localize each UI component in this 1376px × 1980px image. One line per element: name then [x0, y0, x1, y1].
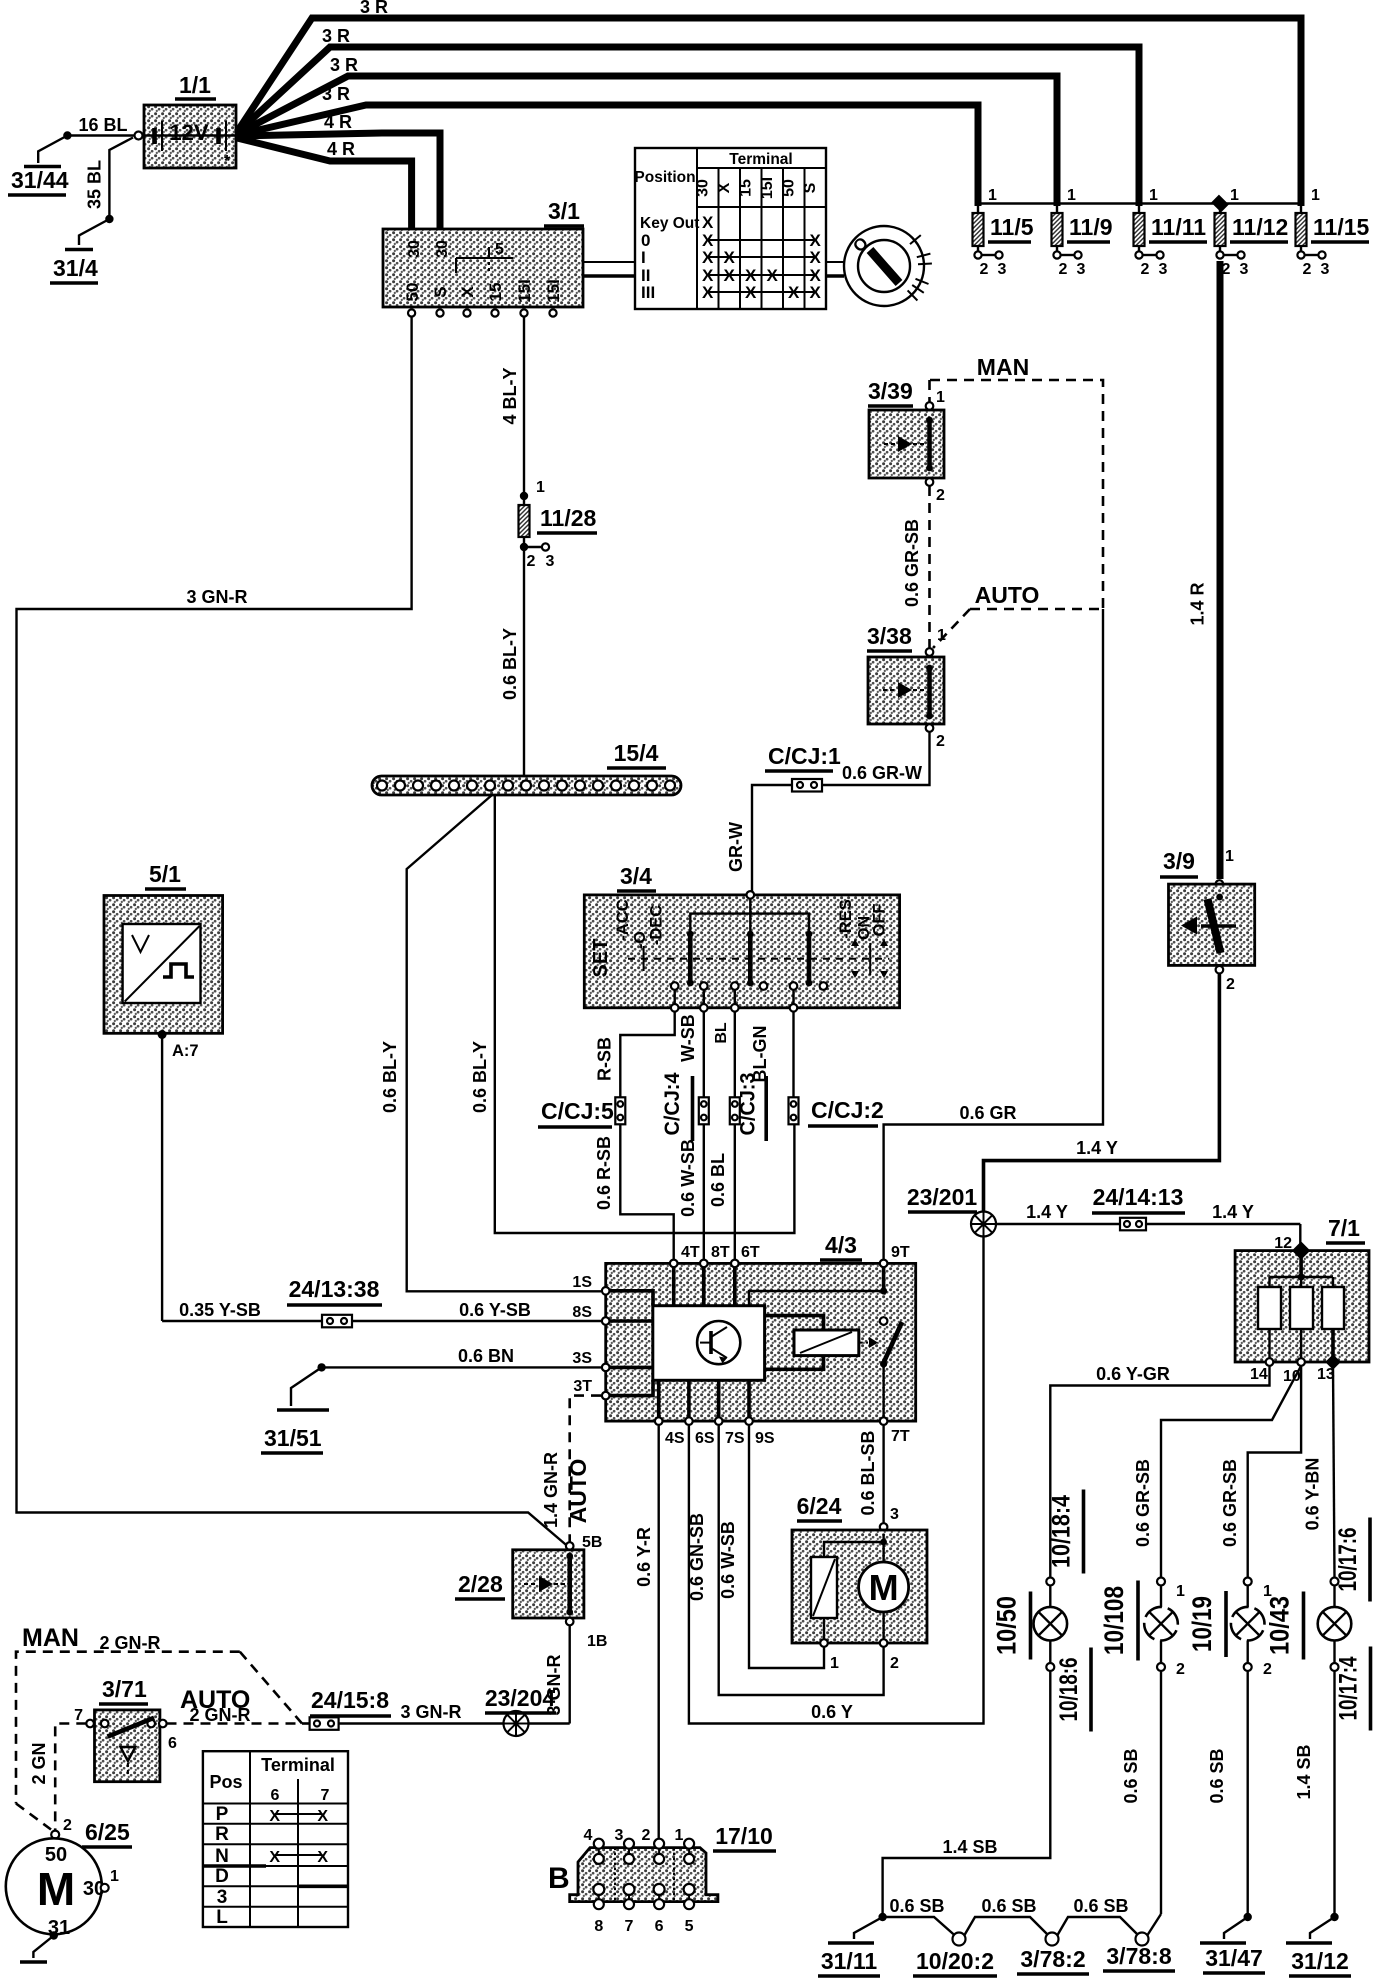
svg-text:10/18:4: 10/18:4: [1048, 1495, 1076, 1568]
svg-text:2: 2: [1263, 1661, 1272, 1678]
svg-text:3 R: 3 R: [322, 26, 350, 46]
svg-text:31/12: 31/12: [1291, 1948, 1349, 1974]
svg-text:1: 1: [988, 187, 997, 204]
svg-text:31/51: 31/51: [264, 1425, 322, 1451]
svg-text:R-SB: R-SB: [595, 1037, 615, 1081]
svg-text:2: 2: [642, 1827, 651, 1844]
svg-text:3: 3: [615, 1827, 624, 1844]
svg-text:L: L: [216, 1907, 228, 1928]
svg-text:24/14:13: 24/14:13: [1093, 1184, 1184, 1210]
svg-text:X: X: [716, 182, 733, 193]
svg-text:12V: 12V: [169, 120, 208, 145]
svg-text:7: 7: [74, 1707, 83, 1724]
svg-text:1.4 SB: 1.4 SB: [1294, 1744, 1314, 1799]
svg-text:Position: Position: [634, 169, 695, 186]
svg-text:X: X: [788, 283, 800, 302]
svg-text:17/10: 17/10: [715, 1823, 773, 1849]
svg-text:10/43: 10/43: [1265, 1596, 1295, 1655]
svg-text:4 R: 4 R: [327, 139, 355, 159]
svg-text:30: 30: [695, 179, 712, 197]
svg-text:1.4 Y: 1.4 Y: [1026, 1202, 1068, 1222]
svg-text:MAN: MAN: [22, 1624, 79, 1652]
svg-text:X: X: [702, 213, 714, 232]
svg-text:2: 2: [1141, 261, 1150, 278]
svg-text:2: 2: [1059, 261, 1068, 278]
svg-text:W-SB: W-SB: [678, 1014, 698, 1062]
svg-text:3/71: 3/71: [102, 1676, 147, 1702]
svg-text:0.6 SB: 0.6 SB: [1207, 1748, 1227, 1803]
svg-text:3 GN-R: 3 GN-R: [400, 1702, 461, 1722]
svg-text:R: R: [215, 1824, 229, 1845]
svg-text:35 BL: 35 BL: [85, 160, 105, 209]
svg-text:0.6 GR-SB: 0.6 GR-SB: [902, 519, 922, 607]
svg-text:15I: 15I: [544, 279, 563, 303]
svg-text:M: M: [37, 1863, 75, 1915]
svg-text:10/17:6: 10/17:6: [1334, 1528, 1362, 1592]
svg-text:C/CJ:5: C/CJ:5: [541, 1098, 614, 1124]
svg-text:0.6 W-SB: 0.6 W-SB: [678, 1139, 698, 1217]
svg-text:6: 6: [271, 1787, 280, 1804]
svg-text:0.6 BL-Y: 0.6 BL-Y: [380, 1041, 400, 1113]
svg-text:3 GN-R: 3 GN-R: [186, 587, 247, 607]
svg-text:2: 2: [1176, 1661, 1185, 1678]
svg-text:3: 3: [890, 1506, 899, 1523]
svg-text:X: X: [767, 266, 779, 285]
svg-text:Terminal: Terminal: [729, 151, 792, 168]
svg-text:10/17:4: 10/17:4: [1335, 1656, 1363, 1720]
svg-text:3/39: 3/39: [868, 378, 913, 404]
svg-text:2/28: 2/28: [458, 1571, 503, 1597]
svg-text:4S: 4S: [665, 1430, 685, 1447]
svg-text:X: X: [269, 1808, 280, 1825]
svg-text:C/CJ:4: C/CJ:4: [661, 1072, 684, 1135]
svg-text:4 BL-Y: 4 BL-Y: [500, 367, 520, 424]
svg-text:C/CJ:3: C/CJ:3: [737, 1073, 760, 1136]
svg-text:3: 3: [546, 553, 555, 570]
svg-text:Key Out: Key Out: [640, 215, 699, 232]
svg-text:0.6 W-SB: 0.6 W-SB: [718, 1521, 738, 1599]
svg-text:31/4: 31/4: [53, 255, 98, 281]
svg-text:2: 2: [1226, 976, 1235, 993]
svg-text:SET: SET: [590, 939, 612, 978]
svg-text:0.6 SB: 0.6 SB: [981, 1896, 1036, 1916]
svg-text:0.6 SB: 0.6 SB: [889, 1896, 944, 1916]
svg-text:12: 12: [1274, 1235, 1292, 1252]
svg-text:1: 1: [536, 479, 545, 496]
svg-text:8S: 8S: [572, 1304, 592, 1321]
svg-text:3T: 3T: [573, 1378, 592, 1395]
svg-text:50: 50: [403, 283, 422, 302]
svg-text:0.6 Y-BN: 0.6 Y-BN: [1303, 1458, 1323, 1531]
svg-text:15/4: 15/4: [614, 740, 659, 766]
svg-text:3/1: 3/1: [548, 198, 580, 224]
svg-text:5: 5: [495, 241, 504, 258]
svg-text:10/19: 10/19: [1187, 1596, 1217, 1652]
svg-text:X: X: [269, 1849, 280, 1866]
svg-text:24/13:38: 24/13:38: [289, 1276, 380, 1302]
svg-text:N: N: [215, 1846, 229, 1867]
svg-text:1.4 R: 1.4 R: [1188, 582, 1208, 625]
svg-text:0.6 GN-SB: 0.6 GN-SB: [687, 1513, 707, 1601]
svg-text:11/11: 11/11: [1151, 214, 1206, 240]
svg-text:14: 14: [1250, 1366, 1268, 1383]
svg-text:6: 6: [168, 1735, 177, 1752]
svg-text:3 R: 3 R: [330, 55, 358, 75]
svg-text:11/9: 11/9: [1069, 214, 1113, 240]
svg-text:3: 3: [1077, 261, 1086, 278]
svg-text:0.6 BL-Y: 0.6 BL-Y: [470, 1041, 490, 1113]
svg-text:50: 50: [781, 179, 798, 197]
svg-text:11/15: 11/15: [1313, 214, 1369, 240]
svg-text:8T: 8T: [711, 1244, 730, 1261]
svg-text:1: 1: [936, 389, 945, 406]
svg-text:6S: 6S: [695, 1430, 715, 1447]
svg-text:X: X: [724, 266, 736, 285]
svg-text:X: X: [810, 283, 822, 302]
svg-text:S: S: [431, 286, 450, 297]
svg-text:4 R: 4 R: [324, 112, 352, 132]
svg-text:2: 2: [527, 553, 536, 570]
svg-text:1: 1: [675, 1827, 684, 1844]
svg-text:24/15:8: 24/15:8: [311, 1687, 389, 1713]
svg-text:X: X: [745, 283, 757, 302]
svg-text:Terminal: Terminal: [261, 1755, 335, 1775]
svg-text:2: 2: [1303, 261, 1312, 278]
svg-text:2 GN: 2 GN: [29, 1742, 49, 1784]
svg-text:4: 4: [584, 1827, 593, 1844]
svg-text:C/CJ:1: C/CJ:1: [768, 743, 841, 769]
svg-text:C/CJ:2: C/CJ:2: [811, 1097, 884, 1123]
svg-text:2: 2: [980, 261, 989, 278]
svg-text:10/50: 10/50: [992, 1596, 1022, 1655]
svg-text:0.6 GR-SB: 0.6 GR-SB: [1220, 1459, 1240, 1547]
svg-text:1.4 Y: 1.4 Y: [1212, 1202, 1254, 1222]
svg-text:3S: 3S: [572, 1350, 592, 1367]
svg-text:0.6 GR-SB: 0.6 GR-SB: [1133, 1459, 1153, 1547]
svg-text:1: 1: [1149, 187, 1158, 204]
svg-text:Pos: Pos: [209, 1772, 242, 1792]
svg-text:B: B: [548, 1862, 570, 1895]
svg-text:0.6 Y-R: 0.6 Y-R: [634, 1527, 654, 1587]
svg-text:0.6 BL: 0.6 BL: [708, 1153, 728, 1207]
svg-text:7: 7: [625, 1918, 634, 1935]
svg-text:23/204: 23/204: [485, 1685, 556, 1711]
svg-text:0.6 R-SB: 0.6 R-SB: [594, 1136, 614, 1210]
svg-text:1: 1: [1067, 187, 1076, 204]
svg-text:7S: 7S: [725, 1430, 745, 1447]
svg-text:2 GN-R: 2 GN-R: [99, 1633, 160, 1653]
svg-text:-DEC: -DEC: [648, 905, 666, 945]
svg-text:0.6 GR: 0.6 GR: [959, 1103, 1016, 1123]
svg-text:X: X: [702, 248, 714, 267]
svg-text:11/5: 11/5: [990, 214, 1034, 240]
svg-text:1: 1: [937, 627, 946, 644]
svg-text:2: 2: [890, 1655, 899, 1672]
svg-text:0.6 Y-GR: 0.6 Y-GR: [1096, 1364, 1170, 1384]
svg-text:8: 8: [594, 1918, 603, 1935]
svg-text:3: 3: [217, 1887, 228, 1908]
svg-text:III: III: [641, 283, 655, 302]
svg-text:0.6 BN: 0.6 BN: [458, 1346, 514, 1366]
svg-text:30: 30: [434, 240, 451, 258]
svg-text:X: X: [317, 1808, 328, 1825]
svg-text:15: 15: [738, 179, 755, 197]
svg-text:0.6 Y-SB: 0.6 Y-SB: [459, 1300, 531, 1320]
svg-text:OFF: OFF: [871, 904, 889, 937]
svg-text:3 R: 3 R: [360, 0, 388, 17]
svg-text:1: 1: [1230, 187, 1239, 204]
svg-text:2: 2: [936, 487, 945, 504]
svg-text:P: P: [216, 1804, 229, 1825]
svg-text:X: X: [724, 248, 736, 267]
svg-text:2: 2: [936, 733, 945, 750]
svg-text:1.4 Y: 1.4 Y: [1076, 1138, 1118, 1158]
svg-text:AUTO: AUTO: [975, 582, 1040, 608]
svg-text:6T: 6T: [741, 1244, 760, 1261]
svg-text:X: X: [702, 283, 714, 302]
svg-text:1: 1: [830, 1655, 839, 1672]
svg-text:1.4 SB: 1.4 SB: [942, 1837, 997, 1857]
svg-text:3 R: 3 R: [322, 84, 350, 104]
svg-text:4T: 4T: [681, 1244, 700, 1261]
svg-text:0.6 SB: 0.6 SB: [1073, 1896, 1128, 1916]
svg-text:BL: BL: [713, 1022, 730, 1044]
svg-text:3/78:8: 3/78:8: [1106, 1943, 1171, 1969]
svg-text:0.6 GR-W: 0.6 GR-W: [842, 763, 922, 783]
svg-text:5: 5: [685, 1918, 694, 1935]
svg-text:2: 2: [63, 1817, 72, 1834]
svg-text:11/12: 11/12: [1232, 214, 1288, 240]
svg-text:6: 6: [655, 1918, 664, 1935]
svg-text:6/25: 6/25: [85, 1819, 130, 1845]
svg-text:-ACC: -ACC: [614, 899, 632, 940]
svg-text:I: I: [641, 248, 646, 267]
svg-text:3/4: 3/4: [620, 863, 652, 889]
svg-text:MAN: MAN: [977, 354, 1029, 380]
svg-text:-RES: -RES: [837, 899, 855, 938]
svg-text:3: 3: [1321, 261, 1330, 278]
svg-text:31/44: 31/44: [11, 167, 69, 193]
svg-text:3/38: 3/38: [867, 623, 912, 649]
svg-text:1B: 1B: [587, 1633, 607, 1650]
svg-text:6/24: 6/24: [797, 1493, 842, 1519]
svg-text:0.6 SB: 0.6 SB: [1121, 1748, 1141, 1803]
svg-text:10/108: 10/108: [1099, 1586, 1129, 1655]
svg-text:0.6 Y: 0.6 Y: [811, 1702, 853, 1722]
svg-text:D: D: [215, 1866, 229, 1887]
svg-text:31/11: 31/11: [821, 1948, 877, 1974]
svg-text:1/1: 1/1: [179, 72, 211, 98]
svg-text:5/1: 5/1: [149, 861, 181, 887]
svg-text:16 BL: 16 BL: [78, 115, 127, 135]
svg-text:A:7: A:7: [172, 1042, 199, 1060]
svg-text:3: 3: [1240, 261, 1249, 278]
svg-text:7/1: 7/1: [1328, 1215, 1360, 1241]
svg-text:*: *: [224, 153, 231, 170]
svg-text:30: 30: [406, 240, 423, 258]
svg-text:31/47: 31/47: [1205, 1945, 1263, 1971]
svg-text:10/18:6: 10/18:6: [1055, 1658, 1083, 1722]
svg-text:9T: 9T: [891, 1244, 910, 1261]
svg-text:3/9: 3/9: [1163, 848, 1195, 874]
svg-text:7T: 7T: [891, 1428, 910, 1445]
svg-text:GR-W: GR-W: [726, 822, 746, 872]
svg-text:0.6 BL-SB: 0.6 BL-SB: [858, 1430, 878, 1515]
svg-text:23/201: 23/201: [907, 1184, 978, 1210]
svg-text:3: 3: [1159, 261, 1168, 278]
svg-text:1S: 1S: [572, 1274, 592, 1291]
svg-text:X: X: [810, 248, 822, 267]
svg-text:1: 1: [1311, 187, 1320, 204]
svg-text:10/20:2: 10/20:2: [916, 1948, 994, 1974]
svg-text:15: 15: [486, 283, 505, 302]
svg-text:X: X: [317, 1849, 328, 1866]
svg-text:3/78:2: 3/78:2: [1020, 1946, 1085, 1972]
svg-text:2 GN-R: 2 GN-R: [189, 1705, 250, 1725]
svg-text:1: 1: [1176, 1583, 1185, 1600]
svg-text:0.6 BL-Y: 0.6 BL-Y: [500, 628, 520, 700]
svg-text:AUTO: AUTO: [565, 1459, 591, 1524]
svg-text:4/3: 4/3: [825, 1232, 857, 1258]
svg-text:9S: 9S: [755, 1430, 775, 1447]
svg-text:1: 1: [110, 1868, 119, 1885]
svg-text:15I: 15I: [759, 177, 776, 199]
svg-text:7: 7: [321, 1787, 330, 1804]
svg-text:1: 1: [1225, 848, 1234, 865]
svg-text:S: S: [802, 182, 819, 193]
svg-text:1.4 GN-R: 1.4 GN-R: [541, 1452, 561, 1528]
svg-text:3: 3: [998, 261, 1007, 278]
svg-text:-O: -O: [632, 931, 649, 949]
svg-text:X: X: [458, 286, 477, 298]
svg-text:15I: 15I: [515, 279, 534, 303]
svg-text:0.35 Y-SB: 0.35 Y-SB: [179, 1300, 261, 1320]
svg-text:11/28: 11/28: [540, 505, 596, 531]
svg-text:M: M: [869, 1567, 899, 1608]
